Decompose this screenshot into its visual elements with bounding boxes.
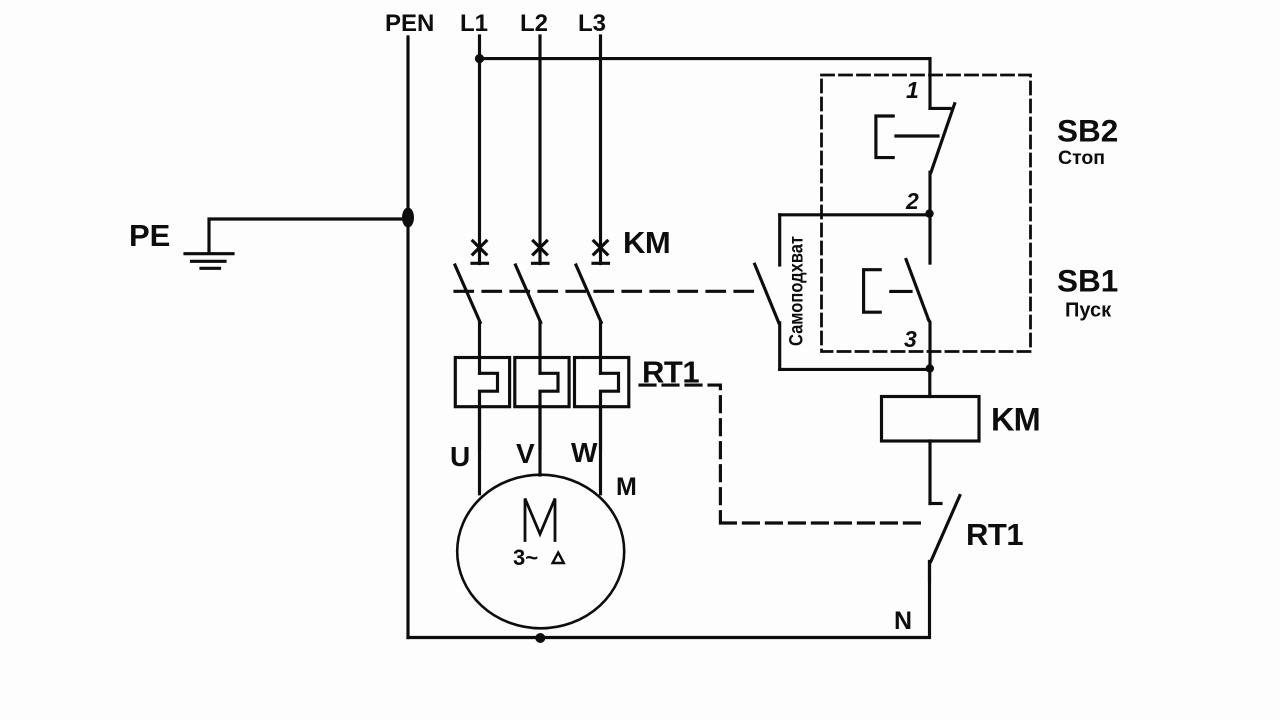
wire U to motor (478, 406, 481, 494)
contactor KM main contact pole 1 blade (455, 265, 480, 373)
wire PEN bus vertical (406, 37, 409, 638)
svg-text:U: U (450, 441, 470, 472)
ground symbol (185, 254, 233, 269)
node junction PE/PEN (402, 208, 414, 228)
node 3 junction (926, 364, 934, 372)
svg-text:2: 2 (905, 188, 919, 214)
svg-text:Пуск: Пуск (1065, 300, 1112, 322)
svg-text:KM: KM (991, 402, 1040, 438)
node junction L1/top bus (475, 54, 484, 63)
dashed enclosure push-button box (822, 75, 1031, 352)
coil KM (882, 369, 980, 504)
svg-text:3: 3 (904, 326, 917, 352)
svg-text:RT1: RT1 (966, 517, 1023, 552)
wire node 2 to self-hold branch (780, 213, 930, 216)
wire bottom N conductor (408, 562, 930, 638)
wire W to motor (599, 406, 602, 494)
svg-text:SB1: SB1 (1057, 263, 1118, 299)
circuit breaker contact X mark pole 3 (593, 241, 609, 263)
svg-text:Стоп: Стоп (1058, 147, 1105, 169)
motor delta symbol (553, 553, 564, 564)
mechanical link dashed line KM contacts to aux contact (455, 290, 754, 293)
push button SB1 (NO, start) (864, 214, 930, 369)
svg-text:M: M (616, 473, 637, 501)
wire L3 (599, 36, 602, 264)
contactor KM main contact pole 3 blade (576, 265, 601, 373)
svg-text:W: W (571, 437, 598, 468)
thermal relay RT1 heater pole 2 (515, 358, 569, 449)
svg-text:L1: L1 (460, 10, 488, 37)
wire node 3 to self-hold branch (780, 368, 930, 371)
thermal relay RT1 heater pole 1 (455, 358, 509, 449)
node 2 junction (925, 209, 933, 217)
svg-text:1: 1 (906, 77, 919, 103)
svg-text:PE: PE (129, 218, 170, 253)
wire PE to PEN bus (209, 219, 408, 253)
thermal relay RT1 NC contact (930, 496, 960, 580)
wire L1 (478, 36, 481, 264)
motor M1 circle (457, 475, 624, 629)
svg-text:N: N (894, 607, 912, 635)
mechanical link dashed RT1 heaters to RT1 contact (640, 385, 925, 523)
svg-text:L3: L3 (578, 10, 606, 37)
push button SB2 (NC, stop) (876, 104, 955, 214)
motor M letter (525, 499, 555, 541)
wire V to motor (538, 406, 541, 475)
contactor KM main contact pole 2 blade (516, 265, 541, 373)
circuit breaker contact X mark pole 2 (533, 241, 549, 263)
svg-text:3~: 3~ (513, 545, 538, 570)
wire top bus to control circuit (480, 59, 931, 109)
circuit breaker contact X mark pole 1 (472, 241, 488, 263)
wire L2 (538, 36, 541, 264)
svg-text:V: V (516, 438, 535, 469)
svg-text:L2: L2 (520, 10, 548, 37)
svg-text:PEN: PEN (385, 10, 434, 37)
thermal relay RT1 heater pole 3 (575, 358, 629, 449)
svg-text:SB2: SB2 (1057, 113, 1118, 149)
svg-text:KM: KM (623, 225, 670, 260)
node junction motor to N (535, 633, 545, 643)
contactor KM auxiliary self-hold contact (755, 215, 780, 370)
svg-text:Самоподхват: Самоподхват (786, 236, 808, 346)
